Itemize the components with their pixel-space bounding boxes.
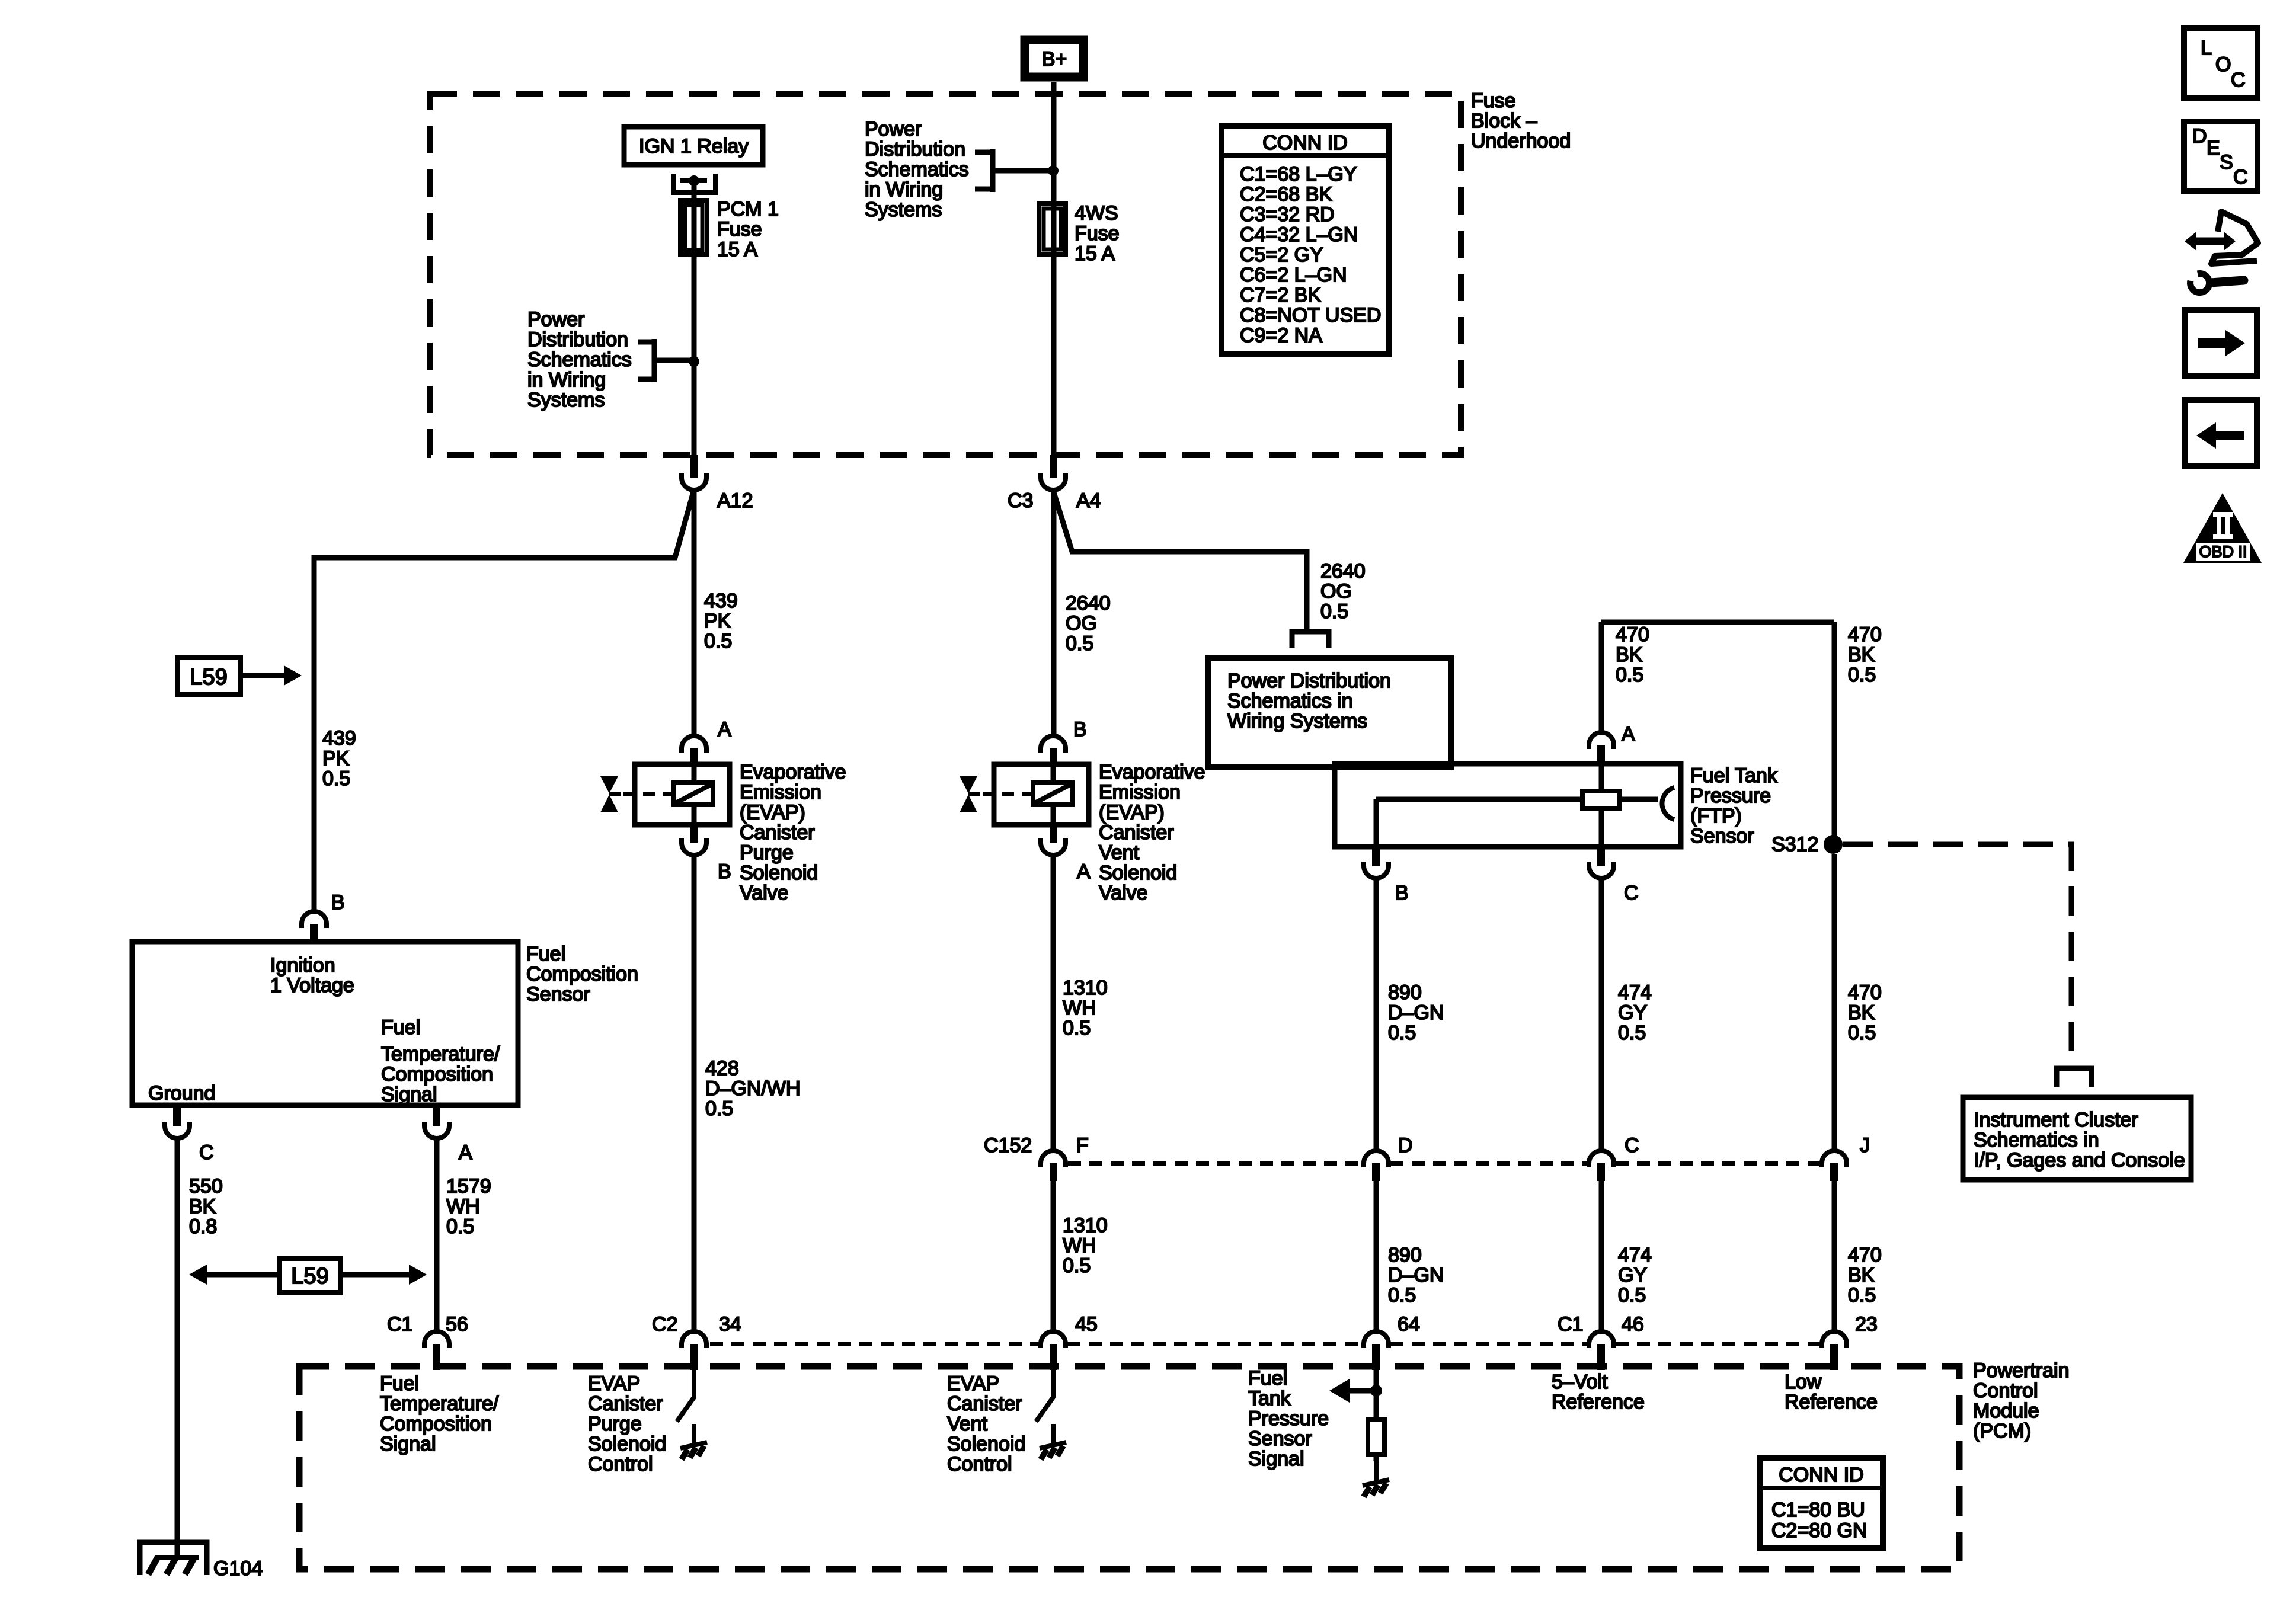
svg-text:Fuse: Fuse xyxy=(1075,222,1120,245)
connector A purge valve xyxy=(682,718,731,766)
svg-text:GY: GY xyxy=(1618,1001,1647,1024)
svg-text:Canister: Canister xyxy=(947,1393,1022,1415)
svg-text:Sensor: Sensor xyxy=(1248,1427,1312,1450)
svg-text:Reference: Reference xyxy=(1552,1391,1645,1413)
svg-text:D: D xyxy=(1398,1134,1413,1157)
IGN 1 Relay box xyxy=(624,127,763,165)
svg-text:D–GN: D–GN xyxy=(1388,1001,1444,1024)
fuse PCM 1 15A xyxy=(680,198,779,261)
connector A vent valve xyxy=(1041,825,1091,883)
svg-text:Valve: Valve xyxy=(1099,882,1148,904)
C152 in-line dashed harness xyxy=(1068,1161,1820,1166)
forward arrow icon xyxy=(2185,310,2257,376)
svg-text:IGN 1 Relay: IGN 1 Relay xyxy=(639,135,749,158)
svg-text:Canister: Canister xyxy=(588,1393,663,1415)
fuel composition sensor box xyxy=(132,942,518,1106)
CONN ID table PCM xyxy=(1760,1458,1883,1548)
connector C3 A4 xyxy=(1008,455,1101,512)
svg-text:1579: 1579 xyxy=(446,1175,491,1198)
connector C FTP xyxy=(1589,847,1639,904)
half bracket into instrument cluster box xyxy=(2057,1068,2092,1087)
svg-text:C: C xyxy=(1625,1134,1639,1157)
fuse 4WS 15A xyxy=(1039,202,1120,265)
svg-text:Fuel: Fuel xyxy=(381,1016,420,1039)
svg-text:B: B xyxy=(1395,882,1409,904)
svg-text:Schematics in: Schematics in xyxy=(1227,690,1353,712)
svg-text:C1=68 L–GY: C1=68 L–GY xyxy=(1240,163,1357,185)
svg-text:in Wiring: in Wiring xyxy=(865,178,943,201)
svg-text:Composition: Composition xyxy=(380,1413,492,1435)
wire sensor ground to G104 xyxy=(175,1140,180,1556)
wire FTP C to C xyxy=(1599,880,1604,1149)
svg-text:C1: C1 xyxy=(387,1313,412,1336)
svg-text:OG: OG xyxy=(1320,580,1352,603)
svg-text:Signal: Signal xyxy=(380,1433,436,1455)
svg-text:OBD II: OBD II xyxy=(2199,543,2247,561)
svg-text:0.5: 0.5 xyxy=(1848,1022,1876,1044)
svg-text:J: J xyxy=(1860,1134,1870,1157)
wire vent valve A to C152 F xyxy=(1051,857,1056,1149)
svg-text:C2=68 BK: C2=68 BK xyxy=(1240,183,1332,206)
top rail wire xyxy=(1601,620,1834,625)
node junction dot 4WS feed xyxy=(1048,165,1059,176)
svg-text:B: B xyxy=(718,860,731,883)
svg-text:BK: BK xyxy=(1848,1264,1875,1286)
svg-text:428: 428 xyxy=(705,1057,739,1080)
svg-text:Composition: Composition xyxy=(381,1063,493,1086)
svg-text:Signal: Signal xyxy=(1248,1448,1304,1470)
svg-text:0.5: 0.5 xyxy=(1848,664,1876,686)
svg-text:0.5: 0.5 xyxy=(1320,600,1348,623)
svg-text:PK: PK xyxy=(704,610,731,632)
svg-text:O: O xyxy=(2215,53,2231,76)
svg-text:WH: WH xyxy=(1063,1234,1096,1257)
half bracket into power distribution box xyxy=(1292,632,1329,648)
svg-text:Ignition: Ignition xyxy=(270,954,335,977)
svg-text:470: 470 xyxy=(1848,623,1882,646)
svg-text:0.5: 0.5 xyxy=(446,1215,474,1238)
svg-text:Solenoid: Solenoid xyxy=(588,1433,666,1455)
svg-text:5–Volt: 5–Volt xyxy=(1552,1371,1608,1393)
harness routing icon xyxy=(2185,212,2258,293)
svg-text:Schematics: Schematics xyxy=(527,348,632,371)
svg-text:Underhood: Underhood xyxy=(1471,130,1571,152)
svg-text:BK: BK xyxy=(1848,1001,1875,1024)
svg-text:Vent: Vent xyxy=(947,1413,988,1435)
dashed wire S312 to instrument cluster xyxy=(1843,844,2071,1063)
FTP signal input arrow resistor xyxy=(1329,1370,1389,1497)
power distribution schematics box xyxy=(1208,658,1451,767)
svg-text:Temperature/: Temperature/ xyxy=(380,1393,499,1415)
svg-text:46: 46 xyxy=(1622,1313,1644,1336)
wire B+ to 4WS fuse xyxy=(1051,82,1057,204)
svg-text:64: 64 xyxy=(1398,1313,1420,1336)
svg-text:G104: G104 xyxy=(213,1557,263,1580)
svg-text:45: 45 xyxy=(1075,1313,1098,1336)
svg-text:890: 890 xyxy=(1388,981,1422,1004)
svg-text:C3: C3 xyxy=(1008,489,1033,512)
connector D xyxy=(1364,1134,1413,1181)
svg-text:C4=32 L–GN: C4=32 L–GN xyxy=(1240,223,1358,246)
ground G104 xyxy=(140,1542,263,1580)
svg-text:CONN ID: CONN ID xyxy=(1779,1464,1864,1486)
fuel tank pressure sensor box xyxy=(1335,764,1681,847)
svg-text:Purge: Purge xyxy=(740,841,794,864)
svg-text:(EVAP): (EVAP) xyxy=(740,801,805,824)
connector 64 xyxy=(1364,1313,1420,1370)
svg-text:CONN ID: CONN ID xyxy=(1262,132,1348,154)
svg-text:Control: Control xyxy=(1973,1379,2038,1402)
L59 reference box lower with arrows xyxy=(189,1259,427,1292)
svg-text:L: L xyxy=(2201,37,2212,59)
svg-text:Emission: Emission xyxy=(740,781,821,804)
svg-text:WH: WH xyxy=(1063,997,1096,1019)
wire A12 to purge valve A xyxy=(692,492,697,734)
wire F to PCM 45 xyxy=(1051,1181,1056,1330)
connector B purge valve xyxy=(682,825,731,883)
svg-text:Emission: Emission xyxy=(1099,781,1181,804)
connector C sensor xyxy=(165,1105,214,1164)
svg-text:F: F xyxy=(1076,1134,1089,1157)
fuse block dashed box xyxy=(430,94,1461,455)
svg-text:BK: BK xyxy=(1848,644,1875,666)
svg-text:Schematics: Schematics xyxy=(865,158,969,181)
wire rail to S312 xyxy=(1832,622,1837,844)
svg-text:0.5: 0.5 xyxy=(1618,1284,1646,1307)
svg-text:0.5: 0.5 xyxy=(1848,1284,1876,1307)
connector B FTP xyxy=(1364,847,1409,904)
node junction dot IGN feed xyxy=(689,356,699,367)
svg-text:0.5: 0.5 xyxy=(1063,1017,1091,1039)
svg-text:Pressure: Pressure xyxy=(1690,785,1771,807)
node S312 xyxy=(1771,833,1843,856)
svg-text:Distribution: Distribution xyxy=(865,138,965,161)
svg-text:Tank: Tank xyxy=(1248,1387,1291,1410)
svg-text:C1=80 BU: C1=80 BU xyxy=(1771,1499,1865,1521)
svg-text:Solenoid: Solenoid xyxy=(740,862,818,884)
svg-text:I/P, Gages and Console: I/P, Gages and Console xyxy=(1974,1149,2185,1172)
svg-text:PK: PK xyxy=(322,747,350,770)
svg-text:E: E xyxy=(2207,137,2220,159)
svg-text:A4: A4 xyxy=(1076,489,1101,512)
svg-text:C8=NOT USED: C8=NOT USED xyxy=(1240,304,1381,327)
svg-text:OG: OG xyxy=(1066,612,1097,635)
svg-text:C: C xyxy=(1624,882,1639,904)
wire 4WS fuse to A4 xyxy=(1051,254,1057,455)
svg-text:C7=2 BK: C7=2 BK xyxy=(1240,284,1321,306)
connector A FTP xyxy=(1589,723,1635,764)
svg-text:A: A xyxy=(1077,860,1091,883)
connector C1 56 xyxy=(387,1313,468,1370)
vent driver switch xyxy=(1036,1370,1066,1459)
svg-text:L59: L59 xyxy=(190,665,227,690)
svg-text:34: 34 xyxy=(719,1313,741,1336)
wire A12 branch to sensor B xyxy=(314,492,693,910)
svg-text:C2: C2 xyxy=(652,1313,677,1336)
PCM dashed box xyxy=(299,1366,1959,1569)
svg-text:B+: B+ xyxy=(1042,48,1067,71)
svg-text:2640: 2640 xyxy=(1066,592,1111,614)
wire A4 to vent valve B xyxy=(1051,492,1057,734)
svg-text:WH: WH xyxy=(446,1195,480,1218)
connector C1 46 xyxy=(1558,1313,1644,1370)
svg-text:A: A xyxy=(459,1141,472,1164)
svg-text:C3=32 RD: C3=32 RD xyxy=(1240,203,1335,226)
connector B sensor xyxy=(302,891,345,942)
svg-text:Systems: Systems xyxy=(527,389,605,411)
connector 45 xyxy=(1041,1313,1098,1370)
svg-text:470: 470 xyxy=(1848,981,1882,1004)
connector C mid xyxy=(1589,1134,1639,1181)
svg-text:Control: Control xyxy=(588,1453,653,1475)
svg-text:Fuse: Fuse xyxy=(717,218,762,241)
wire C to PCM 46 xyxy=(1599,1181,1604,1330)
svg-text:Wiring Systems: Wiring Systems xyxy=(1227,710,1367,732)
svg-text:Ground: Ground xyxy=(148,1082,215,1105)
EVAP canister vent solenoid valve xyxy=(960,764,1089,825)
svg-text:Block –: Block – xyxy=(1471,110,1537,132)
svg-text:0.5: 0.5 xyxy=(705,1097,733,1120)
svg-text:Solenoid: Solenoid xyxy=(947,1433,1025,1455)
svg-text:C5=2 GY: C5=2 GY xyxy=(1240,244,1323,266)
svg-text:C1: C1 xyxy=(1558,1313,1583,1336)
svg-text:474: 474 xyxy=(1618,1244,1652,1266)
svg-text:Valve: Valve xyxy=(740,882,789,904)
svg-text:0.5: 0.5 xyxy=(704,630,732,652)
svg-text:L59: L59 xyxy=(291,1264,328,1289)
svg-text:Fuel: Fuel xyxy=(526,943,565,965)
svg-text:EVAP: EVAP xyxy=(947,1372,999,1395)
svg-text:D–GN: D–GN xyxy=(1388,1264,1444,1286)
svg-text:A: A xyxy=(1622,723,1635,745)
svg-text:Systems: Systems xyxy=(865,199,942,221)
svg-text:Power: Power xyxy=(865,118,922,140)
wire PCM1 fuse to A12 xyxy=(692,255,697,455)
battery feed B+ box xyxy=(1025,40,1083,77)
svg-text:439: 439 xyxy=(322,727,356,750)
wire sensor signal to PCM 56 xyxy=(434,1140,440,1330)
svg-text:Low: Low xyxy=(1785,1371,1822,1393)
svg-text:(PCM): (PCM) xyxy=(1973,1420,2031,1442)
wire S312 to J xyxy=(1832,854,1837,1149)
wire A4 branch to power distribution xyxy=(1054,492,1307,630)
svg-text:Purge: Purge xyxy=(588,1413,642,1435)
svg-text:EVAP: EVAP xyxy=(588,1372,640,1395)
svg-text:Sensor: Sensor xyxy=(1690,825,1754,847)
svg-text:A12: A12 xyxy=(717,489,753,512)
DESC icon xyxy=(2184,121,2257,191)
wire J to PCM 23 xyxy=(1832,1181,1837,1330)
svg-text:C6=2 L–GN: C6=2 L–GN xyxy=(1240,264,1347,286)
svg-text:Fuel Tank: Fuel Tank xyxy=(1690,764,1778,787)
svg-text:B: B xyxy=(331,891,345,914)
connector B vent valve xyxy=(1041,718,1087,766)
svg-text:C152: C152 xyxy=(984,1134,1032,1157)
wire FTP B to D xyxy=(1374,880,1379,1149)
wire rail to FTP A xyxy=(1599,622,1604,731)
svg-text:C: C xyxy=(2233,166,2248,188)
svg-text:BK: BK xyxy=(189,1195,216,1218)
svg-text:C9=2 NA: C9=2 NA xyxy=(1240,324,1322,347)
svg-text:(EVAP): (EVAP) xyxy=(1099,801,1165,824)
instrument cluster schematics box xyxy=(1963,1097,2191,1180)
svg-text:Power Distribution: Power Distribution xyxy=(1227,670,1391,692)
svg-text:Fuel: Fuel xyxy=(380,1372,419,1395)
svg-text:Canister: Canister xyxy=(1099,821,1174,844)
connector C152 F xyxy=(984,1134,1089,1181)
reference bracket to Power Distribution (top) xyxy=(975,149,1049,192)
svg-text:GY: GY xyxy=(1618,1264,1647,1286)
CONN ID table underhood xyxy=(1221,126,1389,354)
svg-text:Evaporative: Evaporative xyxy=(740,761,846,783)
L59 reference box xyxy=(177,658,302,694)
svg-text:0.5: 0.5 xyxy=(1618,1022,1646,1044)
svg-text:Module: Module xyxy=(1973,1400,2039,1422)
svg-text:in Wiring: in Wiring xyxy=(527,369,606,391)
svg-text:Pressure: Pressure xyxy=(1248,1407,1329,1430)
LOC icon xyxy=(2184,28,2257,98)
svg-text:Temperature/: Temperature/ xyxy=(381,1043,500,1065)
svg-text:474: 474 xyxy=(1618,981,1652,1004)
svg-text:Reference: Reference xyxy=(1785,1391,1878,1413)
wire relay to PCM1 fuse xyxy=(692,183,697,200)
svg-text:BK: BK xyxy=(1616,644,1643,666)
svg-text:439: 439 xyxy=(704,590,738,612)
svg-text:15 A: 15 A xyxy=(717,238,757,261)
svg-text:Schematics in: Schematics in xyxy=(1974,1129,2099,1151)
svg-text:Distribution: Distribution xyxy=(527,328,628,351)
svg-text:0.5: 0.5 xyxy=(1066,632,1093,655)
svg-text:0.5: 0.5 xyxy=(1063,1254,1091,1277)
svg-text:4WS: 4WS xyxy=(1075,202,1118,225)
svg-text:C: C xyxy=(199,1141,214,1164)
svg-text:C2=80 GN: C2=80 GN xyxy=(1771,1519,1868,1542)
svg-text:0.8: 0.8 xyxy=(189,1215,217,1238)
OBD II icon xyxy=(2183,493,2262,563)
svg-text:C: C xyxy=(2231,69,2246,91)
svg-text:2640: 2640 xyxy=(1320,560,1366,582)
svg-text:470: 470 xyxy=(1848,1244,1882,1266)
connector 23 xyxy=(1822,1313,1878,1370)
svg-text:Instrument Cluster: Instrument Cluster xyxy=(1974,1109,2138,1131)
svg-text:Control: Control xyxy=(947,1453,1012,1475)
svg-text:Vent: Vent xyxy=(1099,841,1140,864)
svg-text:1 Voltage: 1 Voltage xyxy=(270,974,354,997)
wire D to PCM 64 xyxy=(1374,1181,1379,1330)
svg-text:0.5: 0.5 xyxy=(1616,664,1643,686)
svg-text:0.5: 0.5 xyxy=(322,767,350,790)
svg-text:PCM 1: PCM 1 xyxy=(717,198,779,220)
svg-text:D: D xyxy=(2192,125,2207,148)
EVAP canister purge solenoid valve xyxy=(600,764,730,825)
svg-text:Power: Power xyxy=(527,308,584,331)
svg-text:0.5: 0.5 xyxy=(1388,1022,1416,1044)
svg-text:S312: S312 xyxy=(1771,833,1818,856)
connector A12 xyxy=(682,455,753,512)
reference bracket to Power Distribution (left) xyxy=(638,339,690,382)
svg-text:890: 890 xyxy=(1388,1244,1422,1266)
svg-text:Solenoid: Solenoid xyxy=(1099,862,1177,884)
svg-text:Powertrain: Powertrain xyxy=(1973,1359,2070,1382)
svg-text:Canister: Canister xyxy=(740,821,815,844)
svg-text:470: 470 xyxy=(1616,623,1649,646)
svg-text:A: A xyxy=(718,718,731,741)
connector A sensor xyxy=(424,1105,472,1164)
connector J xyxy=(1822,1134,1870,1181)
svg-text:15 A: 15 A xyxy=(1075,242,1115,265)
svg-text:Fuse: Fuse xyxy=(1471,89,1516,112)
connector C2 34 xyxy=(652,1313,741,1370)
svg-text:Evaporative: Evaporative xyxy=(1099,761,1205,783)
svg-text:56: 56 xyxy=(446,1313,468,1336)
svg-text:D–GN/WH: D–GN/WH xyxy=(705,1077,801,1100)
svg-text:550: 550 xyxy=(189,1175,223,1198)
svg-text:0.5: 0.5 xyxy=(1388,1284,1416,1307)
svg-text:23: 23 xyxy=(1855,1313,1878,1336)
svg-text:Composition: Composition xyxy=(526,963,638,985)
svg-text:Sensor: Sensor xyxy=(526,983,590,1006)
svg-text:B: B xyxy=(1073,718,1087,741)
purge driver switch xyxy=(677,1370,707,1459)
svg-text:(FTP): (FTP) xyxy=(1690,805,1742,827)
svg-text:1310: 1310 xyxy=(1063,977,1108,999)
PCM pin dashed harness line xyxy=(710,1342,1820,1346)
wire purge valve B to PCM 34 xyxy=(692,857,697,1330)
svg-text:Fuel: Fuel xyxy=(1248,1367,1287,1390)
back arrow icon xyxy=(2185,400,2257,466)
svg-text:S: S xyxy=(2220,151,2233,174)
svg-text:Signal: Signal xyxy=(381,1083,437,1106)
relay contact xyxy=(673,174,715,193)
svg-text:1310: 1310 xyxy=(1063,1214,1108,1237)
